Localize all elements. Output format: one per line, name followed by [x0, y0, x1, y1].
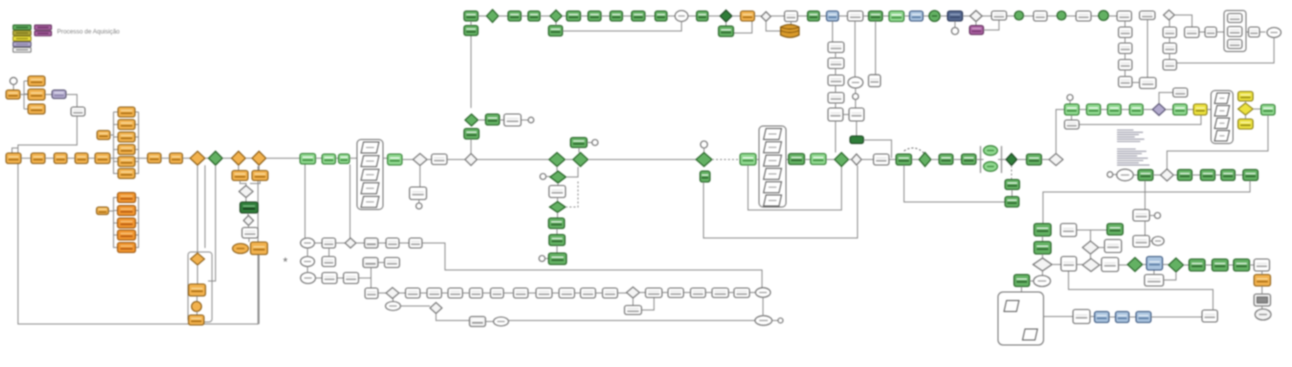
svg-text:*: *	[283, 255, 288, 269]
svg-text:Processo de Aquisição: Processo de Aquisição	[57, 29, 120, 36]
